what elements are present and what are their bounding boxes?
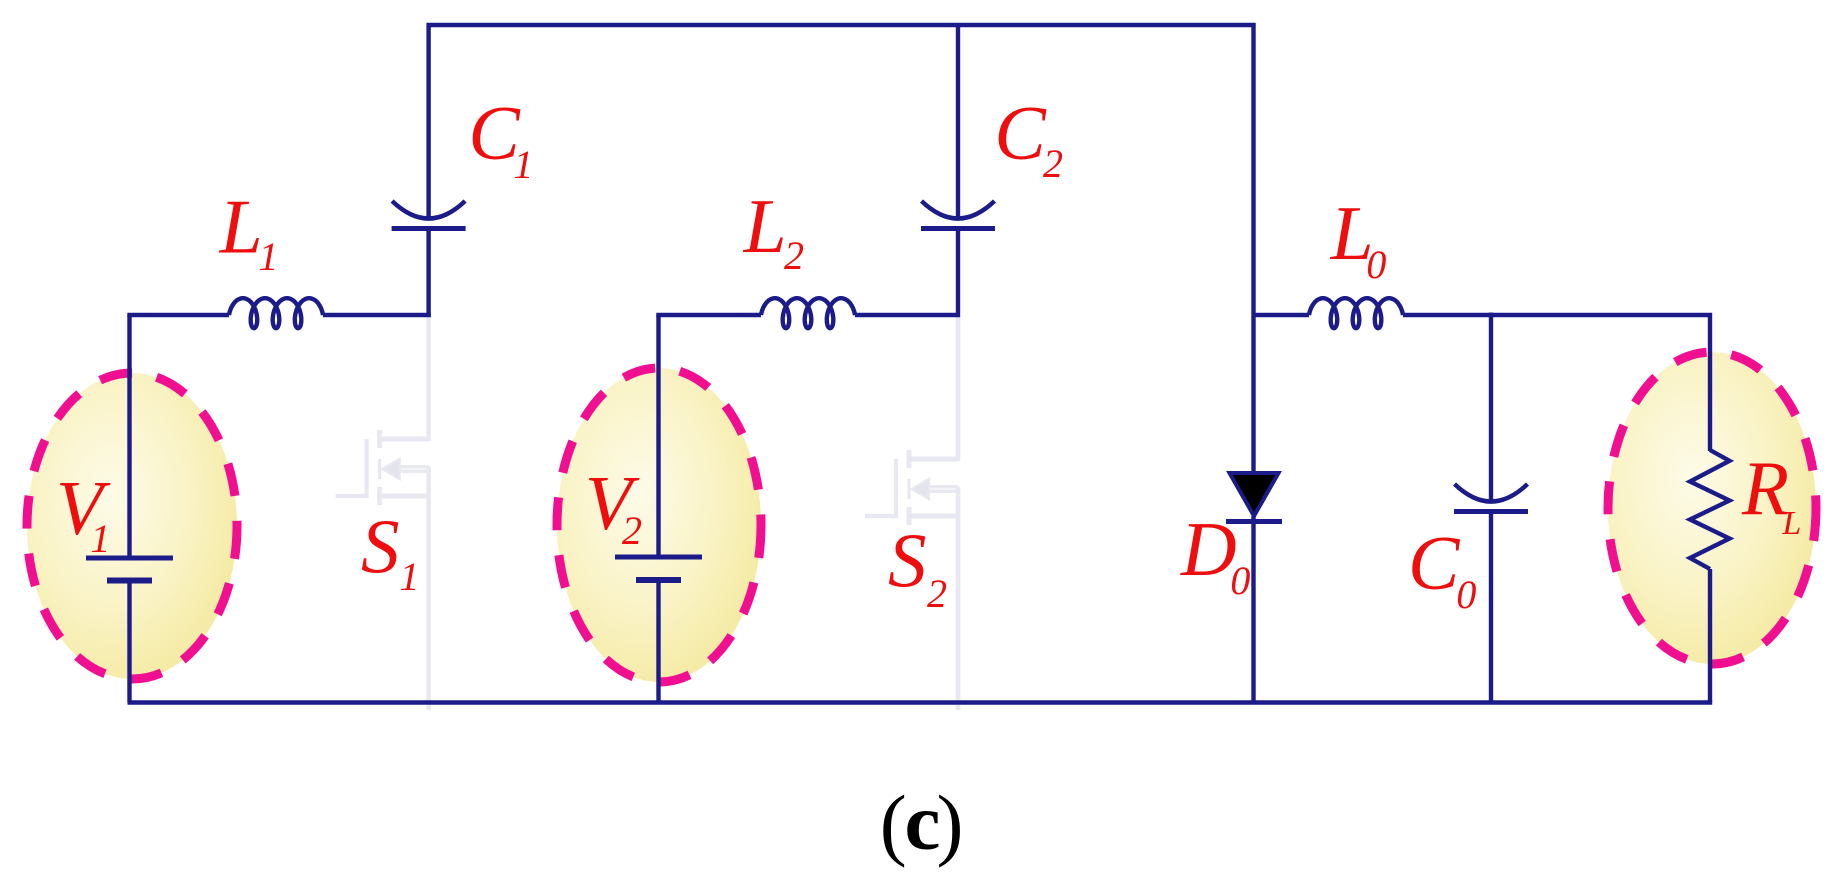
capacitor C0 curved plate <box>1455 484 1528 502</box>
svg-text:1: 1 <box>399 554 419 599</box>
label S2 <box>888 517 947 616</box>
highlight ellipse around V2 <box>557 368 761 682</box>
transistor S1 (MOSFET) symbol <box>336 430 429 505</box>
wire: V2 vertical top <box>656 315 660 555</box>
svg-text:C: C <box>1408 520 1461 606</box>
svg-text:S: S <box>888 517 927 603</box>
wire: V1 vertical bottom <box>127 581 131 703</box>
transistor S2 (MOSFET) symbol <box>865 450 958 525</box>
svg-text:L: L <box>219 184 263 270</box>
wire: L2 to C2/S2 node <box>855 313 960 317</box>
inductor L0 <box>1309 298 1403 328</box>
inductor L2 <box>761 298 855 328</box>
label V1 <box>56 465 111 561</box>
resistor RL zigzag <box>1690 450 1730 569</box>
wire: V1 top corner to L1 <box>130 315 230 317</box>
wire: top rail down to C1 <box>426 23 430 221</box>
label V2 <box>585 460 642 553</box>
label L0 <box>1330 190 1387 287</box>
transistor S1 (MOSFET) drain-source branch <box>426 317 431 710</box>
wire: RL bottom lead <box>1708 569 1712 703</box>
label S1 <box>361 503 419 599</box>
svg-text:1: 1 <box>513 142 533 187</box>
label D0 <box>1180 506 1250 603</box>
wire: V1 vertical top (L1 left lead down to battery) <box>127 315 131 556</box>
label C1 <box>468 90 533 187</box>
wire: top node down to C0 <box>1489 313 1493 504</box>
svg-text:c: c <box>905 777 941 867</box>
diode D0 triangle <box>1230 473 1279 516</box>
label L1 <box>219 184 279 280</box>
wire: L0 to C0 node to RL top corner <box>1403 315 1710 451</box>
svg-text:1: 1 <box>90 516 110 561</box>
svg-text:0: 0 <box>1366 242 1386 287</box>
svg-text:L: L <box>1781 505 1801 542</box>
voltage source V2 battery long plate <box>615 555 702 560</box>
capacitor C0 straight plate <box>1454 509 1528 514</box>
svg-text:2: 2 <box>622 508 642 553</box>
capacitor C1 straight plate <box>392 226 466 231</box>
inductor L1 <box>229 298 323 328</box>
transistor S2 (MOSFET) drain-source branch <box>956 317 961 710</box>
svg-text:D: D <box>1180 506 1237 592</box>
voltage source V2 battery short plate <box>636 577 681 583</box>
svg-text:S: S <box>361 503 400 589</box>
highlight ellipse around RL <box>1608 352 1816 664</box>
svg-text:0: 0 <box>1230 558 1250 603</box>
wire: C1 down to L1/S1 node <box>426 229 430 318</box>
label C2 <box>994 90 1063 186</box>
svg-text:2: 2 <box>784 233 804 278</box>
svg-text:0: 0 <box>1456 572 1476 617</box>
svg-text:(: ( <box>880 779 907 869</box>
capacitor C2 straight plate <box>921 226 995 231</box>
wire: bottom rail <box>128 700 1713 704</box>
voltage source V1 battery short plate <box>107 578 152 584</box>
wire: top rail right corner down to diode anode <box>1251 23 1255 473</box>
svg-text:L: L <box>743 183 787 269</box>
diode D0 cathode bar <box>1226 519 1282 524</box>
wire: top rail down to C2 <box>956 23 960 221</box>
wire: top rail <box>427 23 1256 27</box>
capacitor C1 curved plate <box>392 201 465 219</box>
capacitor C2 curved plate <box>922 201 995 219</box>
wire: diode node to L0 <box>1252 313 1310 317</box>
svg-text:2: 2 <box>927 571 947 616</box>
wire: C2 down to L2/S2 node <box>956 229 960 318</box>
caption (c) <box>880 777 964 869</box>
wire: C0 down to bottom rail <box>1489 512 1493 703</box>
wire: diode cathode down to bottom rail <box>1251 516 1255 703</box>
label C0 <box>1408 520 1476 617</box>
wire: L1 to C1/S1 node <box>323 313 431 317</box>
highlight ellipse around V1 <box>27 373 237 679</box>
svg-text:): ) <box>937 779 964 869</box>
label L2 <box>743 183 804 278</box>
svg-text:1: 1 <box>258 234 278 279</box>
svg-text:C: C <box>994 90 1047 176</box>
voltage source V1 battery long plate <box>86 556 173 561</box>
svg-text:2: 2 <box>1043 141 1063 186</box>
wire: V2 vertical bottom <box>656 580 660 703</box>
wire: V2 top corner to L2 <box>659 315 762 317</box>
label RL <box>1741 445 1801 542</box>
